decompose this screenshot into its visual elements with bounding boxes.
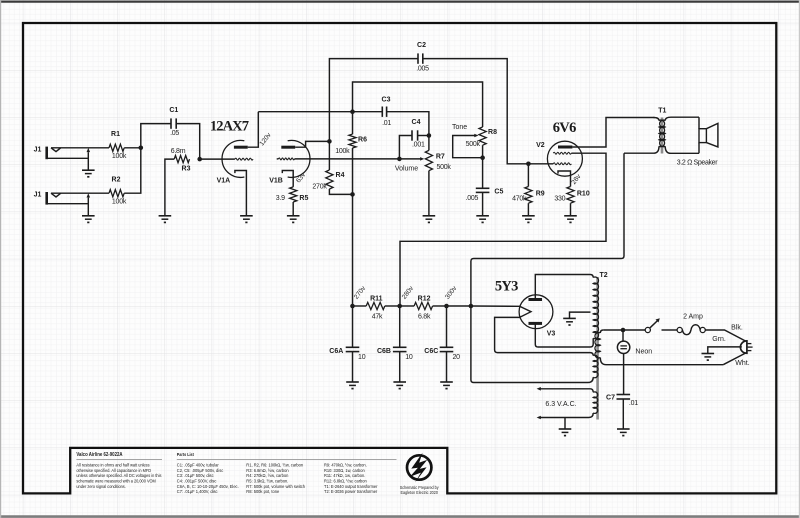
resistor R2 [109, 190, 124, 197]
node 6V6 grid / R9 [526, 162, 531, 167]
ground (C6B) [393, 381, 406, 383]
wire C4 to R7 top node [418, 135, 429, 137]
svg-text:.005: .005 [466, 195, 479, 202]
wire V2 screen down to B+ rail [400, 153, 606, 306]
wire R4 bottom to B+ line [329, 189, 352, 194]
wire node up to C1 [141, 124, 171, 148]
wire V1B plate to node [295, 141, 329, 147]
capacitor C1 [170, 118, 172, 128]
svg-text:5Y3: 5Y3 [495, 278, 518, 294]
ground (C5) [476, 215, 489, 217]
wire 6.3V tap to ground [564, 418, 566, 430]
node V1B plate [327, 139, 332, 144]
svg-text:470k: 470k [512, 196, 527, 203]
V1A grid [200, 158, 235, 160]
svg-text:.01: .01 [629, 400, 638, 407]
svg-text:V2: V2 [536, 142, 545, 149]
V1B grid [277, 158, 279, 160]
svg-text:Blk.: Blk. [731, 325, 743, 332]
capacitor C5 [476, 187, 490, 189]
volume wiper arrow [399, 158, 420, 160]
photo right edge [798, 0, 800, 518]
svg-text:2 Amp: 2 Amp [683, 313, 703, 320]
svg-text:R7: R7 [436, 153, 445, 160]
svg-text:R1: R1 [111, 131, 120, 138]
wire V3 bottom plate to T2 HV bottom [535, 323, 593, 347]
ground (R10) [564, 215, 577, 217]
photo top edge [0, 1, 800, 3]
svg-text:C6C: C6C [424, 348, 438, 355]
fuse F1 2 Amp [677, 327, 682, 332]
svg-text:T2: E-3036 power transformer: T2: E-3036 power transformer [324, 489, 378, 494]
ground (C6C) [440, 381, 453, 383]
node B+ C6B [397, 304, 402, 309]
svg-text:R6: R6 [358, 137, 367, 144]
wire R10 to ground [570, 203, 572, 216]
ground (jack J1 bottom) [82, 215, 95, 217]
wire neon to C7 [623, 354, 625, 395]
rectifier V3 envelope [519, 295, 553, 329]
svg-text:C4: C4 [412, 119, 421, 126]
node input junction [139, 146, 144, 151]
T2 primary winding [600, 330, 603, 333]
svg-text:R3: R3 [182, 165, 191, 172]
ground (R9) [522, 215, 535, 217]
svg-text:R2: R2 [112, 177, 121, 184]
wire plug ground (Grn) [708, 347, 742, 354]
capacitor C6A [352, 306, 354, 347]
T1 core [661, 118, 664, 154]
T2 HV center tap to ground [570, 312, 591, 318]
plug prongs [748, 343, 752, 345]
ground (mains Grn) [702, 353, 715, 355]
capacitor C6B [399, 306, 401, 347]
V3 filament [520, 306, 531, 317]
wire plug neutral (Wht) [723, 353, 746, 365]
svg-text:500k: 500k [466, 141, 481, 148]
svg-text:R9: R9 [536, 190, 545, 197]
V2 control grid [553, 163, 571, 165]
wire jack2 shorting contact to ground [87, 198, 89, 216]
svg-text:Grn.: Grn. [712, 336, 726, 343]
resistor R9 [527, 164, 529, 187]
T1 primary winding [654, 118, 660, 121]
V3 plate top [529, 298, 543, 301]
svg-text:47k: 47k [372, 314, 383, 321]
svg-text:10: 10 [358, 354, 366, 361]
svg-text:V1B: V1B [269, 178, 283, 185]
resistor R8 tone pot [479, 127, 486, 145]
wire R2 up to input node [124, 148, 141, 193]
mains plug [740, 341, 747, 353]
wire R9 to ground [527, 203, 529, 216]
node B+ C6A [350, 304, 355, 309]
svg-text:10: 10 [405, 354, 413, 361]
node B+ rectifier output [469, 304, 474, 309]
V3 plate bottom [529, 322, 543, 325]
capacitor C6C [446, 306, 448, 347]
ground (jack J1 top) [82, 169, 95, 171]
wire R1 to node [124, 147, 141, 149]
wire R11 to node [385, 305, 400, 307]
ground (C7) [617, 428, 630, 430]
node neon tap [621, 328, 626, 333]
ground (T2 center tap) [563, 317, 576, 319]
svg-text:J1: J1 [34, 192, 42, 199]
wire V1A plate line to C3 [258, 111, 382, 113]
svg-text:T1: T1 [658, 107, 666, 114]
ground (R5) [287, 215, 300, 217]
wire V1B plate node up to C2 [329, 59, 418, 142]
wire V3 top plate to T2 HV top [535, 275, 593, 300]
svg-text:20: 20 [452, 354, 460, 361]
V1B plate [281, 146, 295, 149]
svg-text:Wht.: Wht. [735, 360, 749, 367]
svg-text:R8: 500k pot, tone: R8: 500k pot, tone [246, 489, 279, 494]
wire R6 top lead [352, 112, 354, 134]
V2 cathode [558, 171, 571, 187]
ground (R7) [423, 215, 436, 217]
V2 screen grid [553, 152, 571, 154]
capacitor C7 [617, 394, 631, 396]
svg-text:R12: R12 [418, 295, 431, 302]
wire primary top to switch [603, 329, 645, 331]
svg-text:Valco Airline 62-9022A: Valco Airline 62-9022A [76, 452, 123, 457]
wire volume node up to C4 [399, 136, 412, 159]
svg-text:6.8k: 6.8k [418, 314, 431, 321]
T2 core [596, 277, 599, 420]
svg-text:12AX7: 12AX7 [210, 119, 249, 135]
wire R8 bottom [482, 145, 484, 158]
wire V1A plate up [248, 112, 259, 148]
triode V1B envelope arc [288, 140, 310, 177]
svg-text:.001: .001 [412, 142, 425, 149]
wire jack2 sleeve [48, 203, 89, 205]
resistor R1 [109, 144, 124, 151]
svg-text:V3: V3 [547, 330, 556, 337]
wire jack1 sleeve [48, 157, 89, 159]
wire jack2 tip to R2 [51, 192, 109, 194]
wire to rectifier node [447, 305, 471, 307]
T2 6.3V winding [539, 389, 594, 393]
neon lamp [622, 330, 624, 341]
V2 plate [558, 146, 572, 149]
wire C7 to ground [622, 399, 624, 429]
ground (R3) [159, 215, 172, 217]
photo bottom edge [0, 515, 800, 518]
wire V2 plate to T1 primary top [572, 118, 654, 148]
svg-text:100k: 100k [335, 148, 350, 155]
svg-text:C6A: C6A [329, 348, 343, 355]
svg-text:C6B: C6B [377, 348, 391, 355]
wire V3 filament bottom to T2 5V winding [495, 317, 594, 355]
svg-text:Neon: Neon [635, 348, 652, 355]
svg-text:C7: .01µF 1,400V, disc: C7: .01µF 1,400V, disc [177, 489, 218, 494]
svg-text:.05: .05 [170, 130, 179, 137]
wire fuse to plug (Blk) [705, 330, 746, 342]
heater wire arrows 6.3VAC [537, 387, 541, 391]
wire R3 left to ground [165, 159, 174, 216]
resistor R12 [400, 305, 414, 307]
node R7 top [427, 133, 432, 138]
Eagleton Electric logo [407, 455, 431, 479]
svg-text:.005: .005 [416, 66, 429, 73]
resistor R3 [174, 156, 189, 163]
svg-text:3.9: 3.9 [276, 195, 285, 202]
svg-text:J1: J1 [34, 146, 42, 153]
svg-text:C1: C1 [169, 107, 178, 114]
svg-text:C7: C7 [606, 395, 615, 402]
svg-text:100k: 100k [112, 199, 127, 206]
svg-text:R10: R10 [577, 190, 590, 197]
svg-text:100k: 100k [112, 153, 127, 160]
wire R12 to node [433, 305, 447, 307]
ground (V1A cathode) [240, 215, 253, 217]
svg-text:Tone: Tone [452, 124, 467, 131]
svg-text:R5: R5 [299, 195, 308, 202]
T1 secondary winding [665, 117, 671, 120]
wire jack1 tip to R1 [51, 147, 109, 149]
V1A cathode to ground [235, 171, 247, 216]
svg-text:.01: .01 [382, 120, 391, 127]
node plate/R6/tone junction [350, 109, 355, 114]
svg-text:330: 330 [554, 196, 565, 203]
wire node to C5 [482, 158, 484, 189]
photo left edge [0, 0, 2, 518]
wire C5 to ground [482, 192, 484, 215]
svg-text:3.2 Ω Speaker: 3.2 Ω Speaker [677, 159, 718, 166]
T2 HV secondary winding [593, 277, 598, 339]
tone wiper arrow to bottom [455, 135, 475, 137]
ground (C6A) [346, 381, 359, 383]
svg-text:R4: R4 [336, 172, 345, 179]
capacitor C2 [417, 53, 419, 63]
pentode V2 envelope [547, 141, 582, 176]
svg-text:500k: 500k [437, 164, 452, 171]
svg-text:C2: C2 [417, 42, 426, 49]
T2 5V winding [593, 355, 598, 378]
svg-text:6.3 V.A.C.: 6.3 V.A.C. [545, 401, 576, 408]
svg-text:C3: C3 [382, 97, 391, 104]
svg-text:T2: T2 [600, 272, 608, 279]
wire tone feed from plate node [353, 82, 483, 127]
wire T2 5V bottom to B+ node [471, 306, 593, 383]
V1B cathode [282, 171, 293, 187]
svg-text:under zero signal conditions.: under zero signal conditions. [76, 484, 125, 489]
svg-text:Eagleton Electric 2020: Eagleton Electric 2020 [400, 489, 438, 495]
wire node to 5Y3 filament [471, 305, 520, 307]
wire V1B grid to volume node [295, 158, 400, 160]
node tone/C5 [480, 155, 485, 160]
wire R5 to ground [292, 202, 294, 216]
wire T1 secondary to speaker [671, 116, 699, 118]
wire C3 down to R7 node [387, 112, 429, 136]
wire switch to fuse [662, 329, 678, 331]
node V1A grid [197, 157, 202, 162]
triode V1A envelope arc [222, 140, 244, 177]
svg-text:Parts List: Parts List [177, 452, 194, 458]
switch [645, 327, 650, 332]
wire R7 to ground [428, 171, 430, 216]
svg-text:6V6: 6V6 [553, 120, 576, 136]
ground (6.3V tap) [559, 428, 572, 430]
svg-text:270k: 270k [312, 183, 327, 190]
svg-text:V1A: V1A [217, 177, 231, 184]
wire T1 primary bottom to B+ [471, 153, 624, 306]
resistor R7 volume pot [428, 136, 430, 151]
resistor R4 [328, 141, 330, 170]
wire C2 to 6V6 grid [423, 59, 554, 164]
speaker [699, 129, 706, 143]
V1A plate [234, 146, 248, 149]
capacitor C3 [381, 107, 383, 117]
resistor R5 [290, 187, 297, 202]
resistor R10 [567, 187, 574, 204]
wire C1 to grid node [176, 124, 200, 160]
capacitor C4 [411, 130, 413, 140]
svg-text:R11: R11 [370, 295, 383, 302]
wire jack1 shorting contact to ground [87, 152, 89, 170]
svg-text:6.8m: 6.8m [171, 148, 186, 155]
node R4/B+ junction [350, 192, 355, 197]
resistor R6 [349, 134, 356, 148]
svg-text:R8: R8 [488, 129, 497, 136]
node volume wiper [397, 157, 402, 162]
resistor R11 [353, 305, 367, 307]
svg-text:C5: C5 [494, 189, 503, 196]
node B+ C6C [444, 304, 449, 309]
svg-text:Volume: Volume [395, 166, 418, 173]
wire R6 to B+ vertical [352, 148, 354, 306]
